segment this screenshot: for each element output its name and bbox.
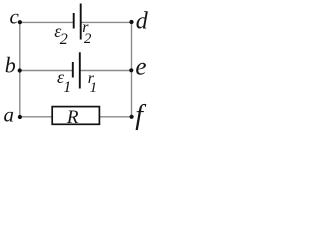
svg-text:a: a — [4, 103, 15, 127]
node b junction dot — [18, 68, 22, 72]
resistor R box — [52, 107, 99, 125]
svg-text:f: f — [135, 100, 146, 131]
svg-text:1: 1 — [63, 79, 71, 96]
svg-text:1: 1 — [90, 80, 98, 96]
svg-text:c: c — [10, 5, 20, 29]
svg-text:2: 2 — [60, 31, 68, 48]
battery cell 2 long plate (positive) — [80, 4, 82, 40]
wire: top rail left segment c to battery2 — [20, 21, 73, 23]
battery cell 1 long plate (positive) — [79, 52, 81, 88]
node f junction dot — [130, 115, 134, 119]
wire: bottom rail left segment a to R — [20, 116, 53, 118]
wire: bottom rail right segment R to f — [99, 116, 131, 118]
wire: middle rail left segment b to battery1 — [20, 70, 73, 72]
svg-text:d: d — [136, 8, 149, 34]
node e junction dot — [129, 68, 133, 72]
svg-text:b: b — [5, 53, 16, 78]
battery cell 1 short plate (negative) — [72, 62, 74, 78]
svg-text:2: 2 — [84, 31, 92, 47]
wire: right vertical d-e-f — [131, 22, 133, 117]
battery cell 2 short plate (negative) — [73, 13, 75, 29]
wire: middle rail right segment battery1 to e — [80, 70, 131, 72]
node a junction dot — [18, 115, 22, 119]
wire: left vertical c-b-a — [19, 22, 21, 117]
node d junction dot — [129, 20, 133, 24]
node c junction dot — [18, 20, 22, 24]
svg-text:e: e — [135, 54, 146, 81]
wire: top rail right segment battery2 to d — [81, 21, 131, 23]
svg-text:R: R — [66, 107, 79, 128]
